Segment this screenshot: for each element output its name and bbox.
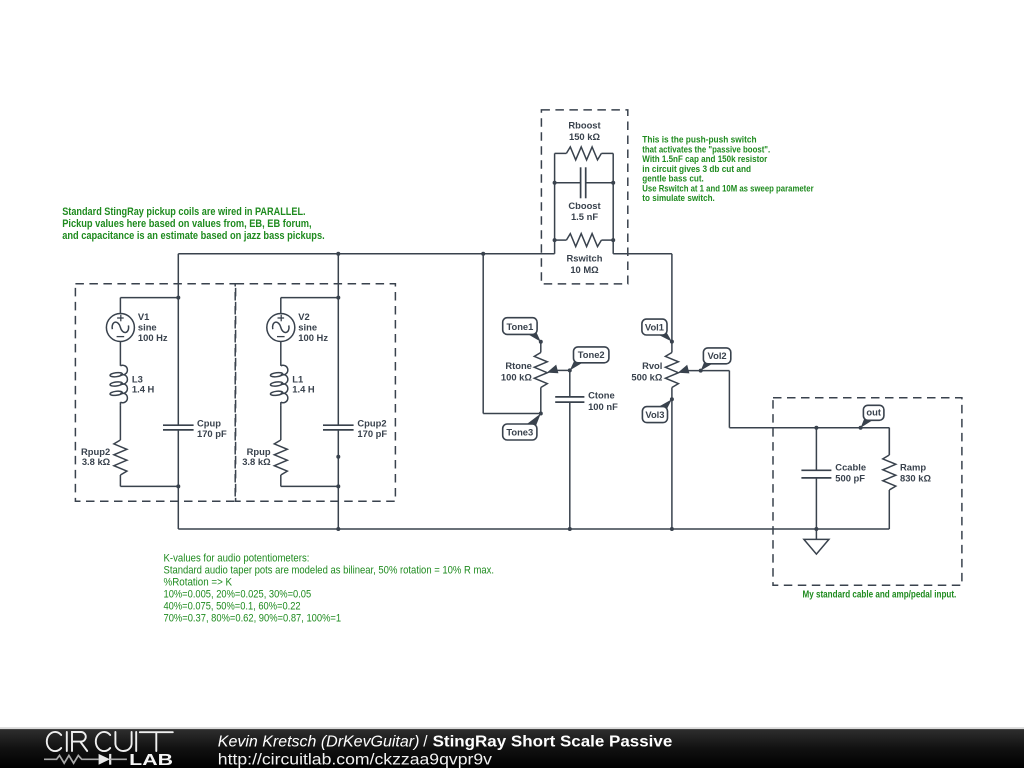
voltage source V2 [267,298,295,365]
svg-text:10 MΩ: 10 MΩ [570,264,599,275]
svg-text:K-values for audio potentiomet: K-values for audio potentiometers: [164,552,310,564]
svg-text:V2: V2 [298,311,309,322]
wire top rail [178,253,554,255]
svg-text:Cboost: Cboost [568,200,600,211]
wire V1 top [120,296,180,300]
footer bar [0,727,1024,768]
svg-text:70%=0.37, 80%=0.62, 90%=0.87,: 70%=0.37, 80%=0.62, 90%=0.87, 100%=1 [164,612,342,624]
dashed enclosure pickup 2 [236,284,396,502]
svg-text:Rvol: Rvol [642,360,662,371]
wire Tone3 branch [482,254,484,414]
resistor Rpup2 [114,405,127,475]
svg-text:100 nF: 100 nF [588,401,618,412]
svg-text:Standard audio taper pots are: Standard audio taper pots are modeled as… [164,564,495,576]
wire V1 bottom [120,475,180,488]
potentiometer Rvol [665,353,729,530]
svg-text:LAB: LAB [129,752,173,768]
capacitor Cboost [553,167,616,198]
svg-text:Cpup2: Cpup2 [357,418,386,429]
ground [804,529,829,554]
svg-text:10%=0.005, 20%=0.025, 30%=0.05: 10%=0.005, 20%=0.025, 30%=0.05 [164,588,312,600]
svg-text:This is the push-push switch: This is the push-push switch [642,135,756,145]
svg-text:%Rotation => K: %Rotation => K [164,576,233,588]
svg-text:Standard StingRay pickup coils: Standard StingRay pickup coils are wired… [62,206,305,218]
svg-text:150 kΩ: 150 kΩ [569,131,600,142]
svg-text:170 pF: 170 pF [357,428,387,439]
junction top rail at Tone drop [481,252,485,256]
svg-text:that activates the "passive bo: that activates the "passive boost". [642,144,770,154]
svg-text:Rboost: Rboost [568,120,600,131]
svg-text:to simulate switch.: to simulate switch. [642,193,715,203]
flag Tone3 [523,414,541,432]
flag Tone1 [523,327,541,341]
flag Tone2 [570,356,588,371]
svg-text:3.8 kΩ: 3.8 kΩ [242,456,271,467]
flag out [861,413,878,427]
svg-text:Tone2: Tone2 [578,349,605,360]
svg-text:1.4 H: 1.4 H [292,384,315,395]
wire boost to Rvol [613,253,672,255]
svg-text:Tone1: Tone1 [506,321,533,332]
resistor Ramp [883,428,896,529]
svg-text:My standard cable and amp/peda: My standard cable and amp/pedal input. [803,589,957,601]
capacitor Cpup2 [323,254,354,529]
capacitor Cpup [163,254,194,529]
svg-text:1.5 nF: 1.5 nF [571,211,598,222]
wire out [728,371,730,428]
svg-text:Use Rswitch at 1 and 10M as sw: Use Rswitch at 1 and 10M as sweep parame… [642,183,814,193]
wire V2 top [281,296,341,300]
svg-text:Ramp: Ramp [900,461,926,472]
wire boost right stub [612,153,614,253]
junction top rail at Cpup2 [336,252,340,256]
svg-text:Vol1: Vol1 [645,321,664,332]
svg-text:Rtone: Rtone [505,360,532,371]
wire V2 bottom [281,475,341,488]
potentiometer Rtone [534,342,570,414]
svg-text:Vol2: Vol2 [708,350,727,361]
svg-text:40%=0.075, 50%=0.1, 60%=0.22: 40%=0.075, 50%=0.1, 60%=0.22 [164,600,301,612]
svg-text:/: / [423,733,428,750]
svg-text:100 Hz: 100 Hz [138,332,168,343]
svg-text:Rswitch: Rswitch [567,253,603,264]
svg-text:sine: sine [138,322,157,333]
dashed enclosure pickup 1 [75,284,235,502]
flag Vol1 [653,328,672,342]
inductor L1 [270,365,288,406]
capacitor Ctone [555,370,584,531]
resistor Rswitch [553,234,616,247]
svg-text:out: out [866,407,881,418]
flag Vol2 [701,357,718,371]
resistor Rboost [555,147,614,160]
svg-text:100 kΩ: 100 kΩ [501,372,532,383]
svg-text:Cpup: Cpup [197,418,221,429]
svg-text:500 kΩ: 500 kΩ [631,372,662,383]
svg-text:Tone3: Tone3 [506,426,533,437]
svg-text:in circuit gives 3 db cut and: in circuit gives 3 db cut and [642,164,751,174]
svg-text:gentle bass cut.: gentle bass cut. [642,174,704,184]
junction bottom rail at Cpup2 [336,527,340,531]
svg-text:Pickup values here based on va: Pickup values here based on values from,… [62,218,311,230]
wire bottom rail [178,528,889,530]
svg-text:With 1.5nF cap and 150k resist: With 1.5nF cap and 150k resistor [642,154,767,164]
svg-text:3.8 kΩ: 3.8 kΩ [82,456,111,467]
flag Vol3 [654,399,672,413]
svg-text:http://circuitlab.com/ckzzaa9q: http://circuitlab.com/ckzzaa9qvpr9v [218,752,493,768]
dashed enclosure cable and amp [773,398,962,586]
resistor Rpup [274,405,287,475]
dashed enclosure boost switch [541,110,627,284]
svg-text:V1: V1 [138,311,149,322]
inductor L3 [110,365,128,406]
svg-text:1.4 H: 1.4 H [132,384,155,395]
svg-text:StingRay Short Scale Passive: StingRay Short Scale Passive [433,733,673,750]
svg-text:830 kΩ: 830 kΩ [900,473,931,484]
wire boost left stub [554,153,556,253]
svg-text:100 Hz: 100 Hz [298,332,328,343]
svg-text:sine: sine [298,322,317,333]
svg-text:and capacitance is an estimate: and capacitance is an estimate based on … [62,230,325,242]
svg-text:Ctone: Ctone [588,390,615,401]
svg-text:Ccable: Ccable [835,461,866,472]
svg-text:Vol3: Vol3 [645,409,664,420]
junction bottom rail at Rvol [670,527,674,531]
capacitor Ccable [801,426,831,531]
svg-text:500 pF: 500 pF [835,473,865,484]
svg-text:Kevin Kretsch (DrKevGuitar): Kevin Kretsch (DrKevGuitar) [218,733,420,750]
voltage source V1 [106,298,134,365]
svg-text:170 pF: 170 pF [197,428,227,439]
